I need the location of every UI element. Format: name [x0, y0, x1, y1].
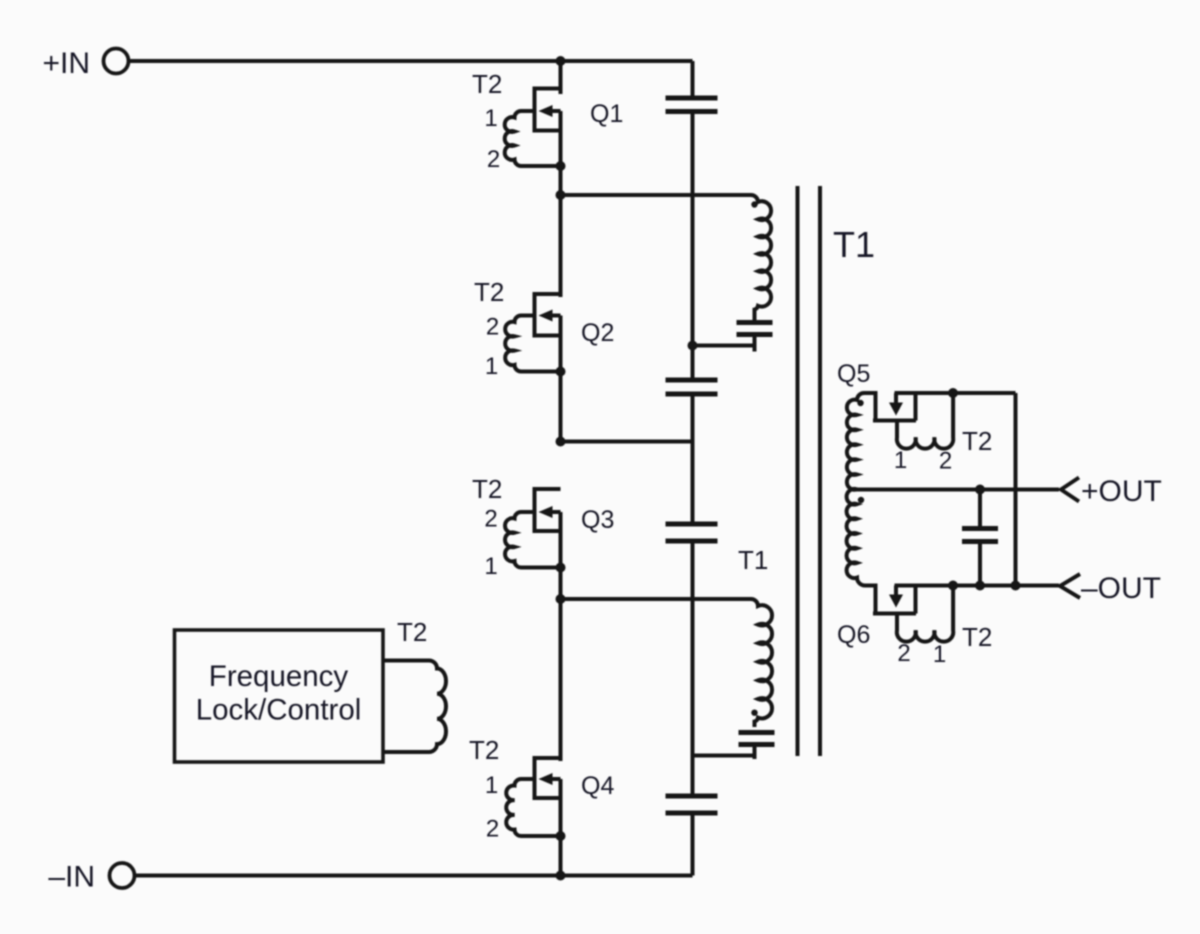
svg-text:2: 2 — [487, 146, 500, 173]
svg-text:T1: T1 — [833, 224, 875, 265]
inductor T2 gate winding of Q6 — [897, 586, 953, 642]
frequency lock/control block — [175, 630, 384, 762]
capacitor C1 bottom plate — [666, 109, 718, 114]
transistor Q5 arrow line — [894, 393, 898, 404]
wire capacitor chain rail segment 4 — [691, 544, 695, 794]
transistor Q6 arrow line — [894, 586, 898, 598]
node output cap top dot — [975, 485, 985, 495]
wire upper tank cap stub — [753, 337, 757, 352]
wire left rail Q1 channel to node A — [559, 111, 563, 297]
capacitor C4 top plate — [666, 794, 718, 799]
capacitor C2 bottom plate — [666, 392, 718, 397]
terminal +IN circle — [104, 49, 129, 74]
terminal +OUT chevron — [1061, 478, 1079, 502]
capacitor C4 bottom plate — [666, 811, 718, 816]
phase dot upper primary — [751, 201, 757, 207]
wire node B to capacitor chain — [561, 440, 693, 444]
svg-text:Q4: Q4 — [581, 772, 614, 800]
svg-text:Lock/Control: Lock/Control — [196, 694, 362, 727]
svg-text:2: 2 — [484, 506, 497, 533]
node Q2 source junction dot — [556, 367, 566, 377]
wire Q5 to output corner — [895, 391, 1016, 395]
svg-text:–IN: –IN — [48, 861, 95, 894]
svg-text:Q3: Q3 — [581, 506, 614, 534]
wire upper tank return to cap rail — [693, 344, 755, 348]
inductor T2 gate winding of Q3 — [505, 512, 560, 568]
svg-text:1: 1 — [933, 641, 946, 668]
svg-text:1: 1 — [485, 772, 498, 799]
svg-text:T2: T2 — [474, 277, 504, 307]
wire capacitor chain rail segment 3 — [691, 397, 695, 522]
capacitor output bottom plate — [962, 539, 998, 544]
svg-text:Q5: Q5 — [837, 360, 870, 388]
phase dot secondary lower — [858, 497, 864, 503]
wire output cap bottom lead — [978, 544, 982, 586]
svg-text:2: 2 — [486, 314, 499, 341]
svg-text:+OUT: +OUT — [1081, 475, 1162, 508]
wire secondary top to Q5 — [864, 391, 878, 395]
transistor Q3 arrow line — [545, 510, 561, 514]
transformer T1 core line right — [818, 186, 822, 756]
inductor T1 secondary winding lower half — [847, 489, 865, 586]
capacitor C1 top plate — [666, 96, 718, 101]
wire node C to T1 lower primary — [561, 597, 752, 601]
node Q5 winding pin2 dot — [948, 388, 958, 398]
node Q4 source junction dot — [556, 831, 566, 841]
transistor Q5 drain stub — [874, 393, 878, 421]
capacitor series lower tank top plate — [739, 730, 775, 735]
svg-text:T2: T2 — [962, 622, 992, 652]
node B dot (Q2 source / Q3 drain) — [556, 437, 566, 447]
wire +OUT from secondary tap — [857, 488, 1059, 492]
node output cap bottom dot — [975, 581, 985, 591]
inductor T1 secondary winding upper half — [847, 393, 864, 490]
node output vertical joins -OUT dot — [1011, 581, 1021, 591]
node Q1 source junction dot — [556, 161, 566, 171]
svg-text:Q6: Q6 — [837, 621, 870, 649]
svg-text:2: 2 — [486, 816, 499, 843]
svg-text:2: 2 — [939, 448, 952, 475]
wire left rail Q3 channel to node C — [559, 512, 563, 761]
capacitor C3 top plate — [666, 522, 718, 527]
svg-text:T2: T2 — [962, 426, 992, 456]
transistor Q5 right edge — [914, 393, 918, 421]
transistor Q4 arrow line — [545, 777, 561, 781]
transistor Q4 arrowhead — [539, 773, 553, 785]
wire secondary bottom to Q6 — [865, 584, 878, 588]
wire node A to T1 upper primary — [561, 193, 752, 197]
svg-text:Frequency: Frequency — [209, 660, 349, 693]
node Q6 winding pin1 dot — [948, 581, 958, 591]
wire lower tank cap stub — [753, 747, 757, 759]
svg-text:1: 1 — [484, 553, 497, 580]
transistor Q2 arrow line — [545, 314, 561, 318]
transistor Q2 body — [535, 294, 561, 336]
capacitor C3 bottom plate — [666, 539, 718, 544]
terminal -OUT chevron — [1060, 574, 1080, 598]
svg-text:T2: T2 — [472, 474, 502, 504]
transistor Q1 body (drain stub, gate bar, bottom edge) — [535, 89, 561, 131]
capacitor series upper tank bottom plate — [737, 332, 773, 337]
wire capacitor chain rail segment 1 — [691, 61, 695, 96]
svg-text:1: 1 — [485, 353, 498, 380]
wire left rail Q4 channel to bottom node — [559, 779, 563, 876]
terminal -IN circle — [110, 863, 135, 888]
wire lower tank return to cap rail — [693, 754, 755, 758]
transistor Q1 arrow line — [545, 109, 561, 113]
svg-text:1: 1 — [894, 447, 907, 474]
node upper tank junction dot — [688, 341, 698, 351]
capacitor output top plate — [962, 526, 998, 531]
wire left rail segment above Q1 — [559, 61, 563, 94]
svg-text:Q2: Q2 — [581, 319, 614, 347]
svg-text:+IN: +IN — [42, 47, 90, 80]
wire left rail Q2 channel to node B — [559, 316, 563, 442]
svg-text:1: 1 — [484, 105, 497, 132]
capacitor series upper tank top plate — [737, 320, 773, 325]
svg-text:2: 2 — [897, 640, 910, 667]
wire capacitor chain rail segment 2 — [691, 114, 695, 378]
node Q3 source junction dot — [556, 563, 566, 573]
node C dot (Q3 source / Q4 drain) — [556, 594, 566, 604]
svg-text:–OUT: –OUT — [1081, 572, 1161, 605]
inductor T1 lower primary winding — [751, 599, 772, 727]
svg-text:T2: T2 — [472, 69, 502, 99]
node A dot (Q1 source / Q2 drain) — [556, 190, 566, 200]
node bottom junction dot — [556, 871, 566, 881]
wire +IN top rail horizontal — [129, 59, 693, 63]
wire output right vertical — [1014, 393, 1018, 586]
transistor Q1 arrowhead — [539, 105, 553, 117]
inductor T2 gate winding of Q1 — [505, 111, 561, 166]
inductor T2 gate winding of Q4 — [506, 779, 560, 836]
inductor T1 upper primary winding — [751, 195, 771, 321]
transistor Q6 arrowhead — [889, 595, 903, 608]
transistor Q6 gate bar — [873, 612, 916, 616]
wire -OUT rail — [895, 584, 1060, 588]
capacitor series lower tank bottom plate — [739, 742, 775, 747]
phase dot lower primary — [751, 710, 757, 716]
capacitor C2 top plate — [666, 378, 718, 383]
wire -IN bottom rail horizontal — [135, 874, 693, 878]
transistor Q3 arrowhead — [539, 506, 553, 518]
transformer T1 core line left — [796, 186, 800, 756]
transistor Q4 body — [535, 758, 561, 798]
phase dot secondary top — [857, 400, 863, 406]
svg-text:Q1: Q1 — [590, 100, 623, 128]
wire output cap top lead — [978, 490, 982, 527]
transistor Q6 right edge — [914, 586, 918, 614]
inductor T2 frequency lock winding — [383, 661, 446, 753]
node top junction dot — [556, 56, 566, 66]
inductor T2 gate winding of Q5 — [897, 393, 953, 449]
transistor Q2 arrowhead — [539, 310, 553, 322]
transistor Q3 body — [535, 489, 561, 531]
inductor T2 gate winding of Q2 — [505, 316, 560, 372]
transistor Q5 gate bar — [873, 419, 916, 423]
svg-text:T2: T2 — [469, 735, 499, 765]
transistor Q6 drain stub — [874, 586, 878, 614]
wire capacitor chain rail segment 5 — [691, 816, 695, 876]
transistor Q5 arrowhead — [889, 403, 903, 416]
svg-text:T2: T2 — [397, 617, 427, 647]
svg-text:T1: T1 — [738, 545, 768, 575]
